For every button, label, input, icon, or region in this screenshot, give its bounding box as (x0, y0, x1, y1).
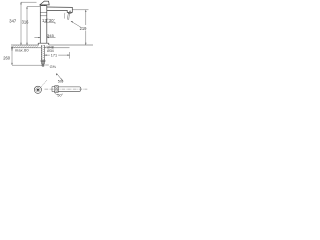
svg-text:347: 347 (9, 18, 17, 23)
washer leader dashed (41, 80, 47, 87)
lever handle (40, 1, 49, 6)
dim line 347 (20, 2, 22, 45)
ref line hose end level (12, 64, 44, 66)
svg-text:316: 316 (22, 20, 30, 25)
shank (41, 45, 44, 60)
svg-text:219: 219 (80, 26, 88, 31)
angle arc bottom (54, 92, 58, 95)
hose nipples (41, 60, 45, 66)
washer end view (34, 86, 41, 93)
svg-text:50°: 50° (57, 93, 63, 97)
counter bottom line (11, 47, 70, 49)
dim line 316 (26, 7, 28, 45)
aerator (68, 11, 71, 14)
counter top line (11, 44, 93, 46)
extension line spout outlet 219 (72, 9, 88, 11)
extension line top 347 (21, 1, 37, 3)
hose nut left (55, 86, 58, 93)
base plate (38, 43, 49, 45)
ext line 171 right (69, 52, 71, 59)
svg-text:13°30': 13°30' (42, 18, 55, 23)
svg-text:50°: 50° (58, 79, 64, 83)
svg-text:260: 260 (3, 55, 11, 60)
body joint ring 1 (40, 12, 47, 14)
dim line 260 (11, 46, 13, 65)
dim max 60 arrow (11, 48, 13, 51)
extension line top 316 (27, 6, 40, 8)
hose centerline (45, 88, 88, 90)
dim line 171 (45, 54, 70, 56)
water stream lines (67, 13, 69, 20)
G3/8 leader (45, 64, 49, 66)
dim line 219 (85, 10, 87, 45)
body joint ring 2 (40, 15, 47, 17)
Ø45 dim line (34, 37, 55, 39)
swivel label leader (44, 22, 55, 24)
counter hatching (12, 45, 47, 48)
hose collar (52, 87, 55, 92)
angle arc top (61, 78, 63, 83)
bent hose indicator (57, 73, 64, 81)
svg-text:171: 171 (51, 53, 57, 57)
stream leader arrow (71, 21, 81, 27)
hose cylinder (58, 87, 81, 91)
svg-text:G⅜: G⅜ (50, 64, 57, 69)
svg-text:Ø45: Ø45 (46, 33, 54, 38)
svg-text:max.60: max.60 (15, 47, 29, 52)
faucet body (40, 6, 47, 44)
spout (47, 7, 73, 12)
